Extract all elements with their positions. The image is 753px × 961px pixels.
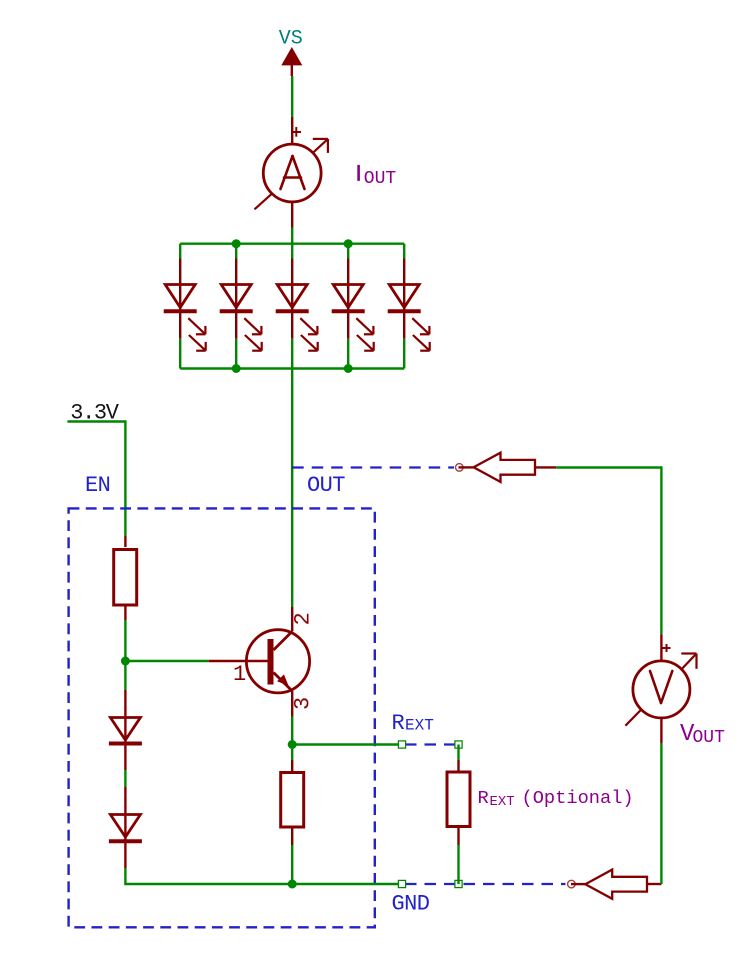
wire left LED drop bbox=[179, 244, 181, 259]
svg-text:EXT: EXT bbox=[405, 717, 434, 735]
junction ground bus bbox=[288, 880, 297, 889]
ammeter letter A bbox=[281, 156, 305, 189]
wire center through LEDs bbox=[291, 244, 293, 259]
ammeter plus sign bbox=[292, 127, 302, 137]
ammeter pin bottom bbox=[291, 202, 293, 228]
wire VS to ammeter bbox=[291, 76, 293, 117]
svg-text:(Optional): (Optional) bbox=[522, 787, 634, 809]
hierarchical pin GND arrow bbox=[571, 870, 661, 899]
svg-text:EN: EN bbox=[85, 473, 110, 498]
transistor Q1 bbox=[209, 607, 310, 717]
voltmeter plus sign bbox=[663, 644, 671, 652]
resistor R2 pin bottom bbox=[291, 828, 293, 845]
wire OUT to voltmeter bbox=[556, 468, 661, 635]
wire REXT optional bottom bbox=[457, 845, 459, 884]
wire voltmeter to GND arrow bbox=[660, 743, 662, 884]
wire base bbox=[125, 660, 208, 662]
ammeter circle bbox=[263, 144, 321, 202]
unconnected circle GND bbox=[568, 880, 576, 888]
svg-text:R: R bbox=[392, 711, 405, 736]
sheet pin square REXT right bbox=[455, 741, 462, 748]
svg-text:OUT: OUT bbox=[364, 169, 397, 189]
LED D3 bbox=[276, 259, 318, 369]
svg-text:3: 3 bbox=[290, 697, 315, 710]
ammeter AM1 pin top bbox=[291, 117, 293, 145]
wire ammeter to LED bus bbox=[291, 228, 293, 244]
unconnected circle OUT bbox=[456, 464, 464, 472]
svg-text:GND: GND bbox=[392, 892, 430, 917]
voltmeter letter V bbox=[650, 671, 672, 703]
LED D5 bbox=[388, 244, 430, 369]
hierarchical pin OUT arrow bbox=[459, 453, 557, 482]
junction base node bbox=[121, 657, 130, 666]
junction emitter node bbox=[288, 740, 297, 749]
bus REXT dashed bbox=[405, 743, 456, 745]
voltmeter diagonal arrow bbox=[625, 654, 696, 726]
svg-text:2: 2 bbox=[290, 612, 315, 625]
wire D7 to ground bus bbox=[125, 868, 292, 884]
diode D6 pin top bbox=[124, 690, 126, 770]
bus GND dashed bbox=[405, 883, 566, 885]
resistor R2 pin top bbox=[291, 760, 293, 771]
resistor REXT optional pin bottom bbox=[457, 828, 459, 845]
wire emitter to junction bbox=[291, 717, 293, 745]
label IOUT bbox=[357, 165, 360, 181]
svg-text:EXT: EXT bbox=[490, 794, 515, 810]
resistor R1 pin top bbox=[124, 536, 126, 547]
svg-text:R: R bbox=[478, 787, 489, 809]
diode D7 pin top bbox=[124, 787, 126, 868]
resistor R1 bbox=[114, 550, 137, 606]
wire R1 to junction bbox=[124, 620, 126, 661]
sheet pin square REXT left bbox=[398, 741, 405, 748]
wire bottom LED bus bbox=[180, 367, 404, 369]
bus OUT dashed bbox=[292, 466, 454, 468]
resistor REXT optional bbox=[447, 772, 470, 827]
resistor R1 pin bottom bbox=[124, 605, 126, 621]
wire REXT sense bbox=[292, 743, 402, 745]
resistor REXT optional pin top bbox=[457, 760, 459, 771]
junction top bus right bbox=[344, 239, 353, 248]
svg-text:OUT: OUT bbox=[307, 473, 345, 498]
voltmeter circle bbox=[633, 661, 690, 718]
resistor R2 bbox=[281, 773, 304, 828]
wire top LED bus bbox=[180, 242, 404, 244]
sheet pin square GND left bbox=[398, 880, 405, 887]
wire D6 to D7 bbox=[124, 770, 126, 787]
wire ground bus to sheet edge bbox=[292, 883, 402, 885]
wire R2 to ground bus bbox=[291, 845, 293, 884]
svg-text:OUT: OUT bbox=[693, 728, 726, 748]
wire REXT optional top bbox=[457, 745, 459, 761]
svg-text:1: 1 bbox=[233, 662, 246, 687]
power symbol VS arrow bbox=[281, 47, 302, 76]
sheet dashed box bbox=[69, 508, 375, 927]
diode D7 bbox=[110, 815, 140, 838]
ammeter diagonal arrow bbox=[255, 139, 328, 209]
LED D2 bbox=[220, 244, 262, 369]
sheet pin square GND right bbox=[455, 880, 462, 887]
svg-text:VS: VS bbox=[279, 27, 303, 50]
wire LED bus down to OUT node and collector bbox=[291, 369, 293, 608]
diode D6 bbox=[110, 718, 140, 741]
junction bottom bus left bbox=[232, 364, 241, 373]
LED D4 bbox=[332, 244, 374, 369]
voltmeter pin top bbox=[660, 634, 662, 661]
wire base junction to diodes bbox=[124, 661, 126, 690]
junction bottom bus right bbox=[344, 364, 353, 373]
wire emitter to R2 bbox=[291, 745, 293, 761]
wire 3.3V feed bbox=[67, 422, 125, 537]
LED D1 bbox=[164, 259, 206, 369]
junction top bus left bbox=[232, 239, 241, 248]
voltmeter pin bottom bbox=[660, 718, 662, 743]
